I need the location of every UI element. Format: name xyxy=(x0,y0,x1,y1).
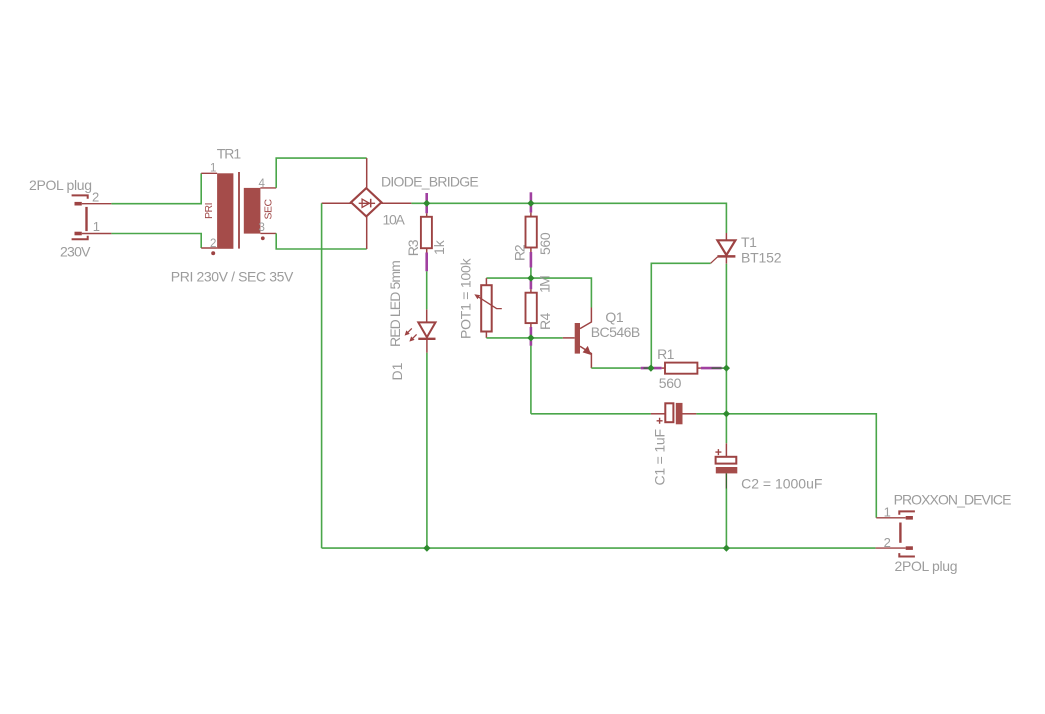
svg-text:1: 1 xyxy=(884,504,891,519)
TR1 secondary winding block xyxy=(244,188,261,234)
wire C2 bottom to bottom rail xyxy=(725,489,727,549)
wire plug pin1 to TR1 pin2 xyxy=(111,234,201,249)
resistor R1 xyxy=(641,363,722,374)
wire bottom rail xyxy=(322,547,876,549)
potentiometer POT1 xyxy=(474,278,502,338)
bridge right pin xyxy=(381,202,411,204)
TR1 core line xyxy=(238,172,240,249)
R4 body xyxy=(526,293,537,323)
wire mid rail junction to PROXXON pin1 xyxy=(726,414,876,518)
wire POT1 bottom row to Q1 base xyxy=(486,337,562,339)
svg-text:Q1: Q1 xyxy=(605,309,623,325)
svg-text:10A: 10A xyxy=(383,211,406,227)
svg-text:PRI: PRI xyxy=(203,203,215,219)
wire R3 bottom to D1 xyxy=(426,271,428,309)
C1 left pin xyxy=(651,413,665,415)
junction top rail R3 xyxy=(423,200,430,207)
T1 cathode bar xyxy=(717,255,735,258)
svg-text:TR1: TR1 xyxy=(217,145,242,161)
junction R4 bottom row xyxy=(527,334,534,341)
R3 top pin (magenta) xyxy=(425,193,428,213)
C2 plate + (outlined) xyxy=(716,457,737,464)
C1 plus sign xyxy=(657,418,663,424)
TR1 polarity dot primary xyxy=(211,251,215,255)
C1 right pin xyxy=(683,413,697,415)
D1 bottom pin xyxy=(426,339,428,353)
wire C1 right to junction xyxy=(696,413,726,415)
svg-text:RED LED 5mm: RED LED 5mm xyxy=(387,261,403,347)
svg-text:2: 2 xyxy=(884,535,891,550)
POT1 wiper arrow xyxy=(478,296,502,308)
T1 gate lead xyxy=(711,257,718,264)
wire top rail bridge right to T1 anode xyxy=(411,203,726,233)
transistor Q1 BC546B xyxy=(563,308,592,369)
svg-text:R1: R1 xyxy=(657,346,675,362)
wire T1 gate run down to R1 junction xyxy=(651,263,710,368)
svg-text:1M: 1M xyxy=(536,276,552,293)
D1 emission arrows xyxy=(407,328,417,339)
svg-text:2: 2 xyxy=(92,190,99,205)
C1 plate - (solid) xyxy=(676,403,683,424)
wire plug pin2 to TR1 pin1 xyxy=(111,173,201,203)
C2 bottom pin xyxy=(725,473,727,488)
C2 top pin xyxy=(725,443,727,457)
wire C1 rail left xyxy=(531,413,651,415)
svg-text:R3: R3 xyxy=(405,239,421,256)
diode bridge B1 DIODE_BRIDGE xyxy=(322,158,412,249)
C2 plate - (solid) xyxy=(716,467,738,473)
svg-text:560: 560 xyxy=(659,375,682,391)
wire D1 to bottom rail xyxy=(426,353,428,548)
svg-text:PROXXON_DEVICE: PROXXON_DEVICE xyxy=(894,492,1011,508)
TR1 pin 3 lead xyxy=(260,232,276,234)
resistor R4 xyxy=(526,280,537,345)
wire TR1 pin4 to bridge top xyxy=(276,158,367,188)
capacitor C1 xyxy=(651,403,697,424)
connector X2 PROXXON 2POL plug (right) xyxy=(876,511,915,556)
svg-text:1k: 1k xyxy=(431,239,447,255)
TR1 pin 1 lead xyxy=(201,172,217,174)
svg-text:230V: 230V xyxy=(60,244,91,260)
svg-text:C1 = 1uF: C1 = 1uF xyxy=(651,429,667,485)
svg-text:2POL plug: 2POL plug xyxy=(29,177,92,193)
R3 bottom pin (magenta) xyxy=(426,248,428,252)
POT1 bottom pin xyxy=(485,332,487,338)
R2 body xyxy=(526,217,537,248)
junction bottom rail C2 xyxy=(723,545,730,552)
svg-text:DIODE_BRIDGE: DIODE_BRIDGE xyxy=(381,174,478,190)
svg-text:POT1 = 100k: POT1 = 100k xyxy=(457,257,473,339)
resistor R2 xyxy=(526,192,537,267)
wire T1 cathode down rail xyxy=(725,264,727,444)
junction R1 left xyxy=(647,365,654,372)
bridge inner diode xyxy=(359,199,375,208)
R4 top pin (magenta) xyxy=(530,280,533,289)
D1 cathode bar xyxy=(418,338,435,340)
svg-text:2: 2 xyxy=(210,238,216,250)
junction dots xyxy=(423,200,730,552)
thyristor T1 BT152 xyxy=(711,233,736,264)
bridge diamond body xyxy=(351,188,381,216)
D1 triangle xyxy=(418,322,435,337)
R3 body xyxy=(421,217,432,248)
wire junction R4 bottom down to C1 rail xyxy=(530,338,532,414)
TR1 pin 4 lead xyxy=(260,187,276,189)
D1 top pin xyxy=(426,309,428,322)
svg-text:4: 4 xyxy=(259,178,266,190)
bridge left pin xyxy=(322,202,352,204)
Q1 emitter xyxy=(580,346,591,368)
junction top rail R2 xyxy=(527,200,534,207)
wire junction row to Q1 collector xyxy=(486,278,591,307)
svg-text:BT152: BT152 xyxy=(741,249,782,265)
led D1 xyxy=(405,309,436,353)
svg-text:PRI 230V / SEC 35V: PRI 230V / SEC 35V xyxy=(171,269,294,285)
TR1 pin 2 lead xyxy=(201,247,217,249)
svg-text:T1: T1 xyxy=(741,234,757,250)
C2 plus sign xyxy=(715,449,721,455)
wire Q1 emitter to R1 junction xyxy=(591,367,640,369)
R1 body xyxy=(665,363,697,374)
TR1 polarity dot secondary xyxy=(261,236,265,240)
Q1 base lead xyxy=(563,337,575,339)
wire TR1 pin3 to bridge bottom xyxy=(276,233,367,249)
Q1 base bar xyxy=(575,323,580,354)
R2 top pin (magenta) xyxy=(530,192,533,212)
svg-text:D1: D1 xyxy=(389,362,405,380)
bridge top pin xyxy=(366,158,368,188)
svg-text:SEC: SEC xyxy=(263,198,275,219)
bridge bottom pin xyxy=(366,217,368,250)
svg-text:C2 = 1000uF: C2 = 1000uF xyxy=(741,475,822,491)
svg-text:R4: R4 xyxy=(537,312,553,330)
Q1 emitter arrow xyxy=(583,346,592,355)
capacitor C2 xyxy=(715,443,737,488)
Q1 collector xyxy=(580,308,591,329)
svg-text:BC546B: BC546B xyxy=(591,324,640,340)
wire R2 bottom to junction xyxy=(530,268,532,279)
junction bottom rail D1 xyxy=(423,545,430,552)
R1 left pin (magenta) xyxy=(641,367,662,370)
svg-text:3: 3 xyxy=(259,222,265,234)
TR1 primary winding block xyxy=(217,173,233,249)
svg-text:2POL plug: 2POL plug xyxy=(895,558,958,574)
svg-text:R2: R2 xyxy=(511,244,527,261)
T1 anode pin xyxy=(725,233,727,240)
R4 bottom pin (magenta) xyxy=(530,323,532,327)
R1 right pin (magenta) xyxy=(697,367,701,369)
R2 bottom pin (magenta) xyxy=(530,248,532,253)
T1 cathode pin xyxy=(725,256,727,263)
junction R2 bottom row xyxy=(527,275,534,282)
junction mid rail T1 column xyxy=(723,410,730,417)
svg-text:560: 560 xyxy=(537,232,553,255)
C1 plate + (outlined) xyxy=(665,403,673,422)
wire under R1 right pin xyxy=(712,367,727,369)
POT1 body xyxy=(481,285,492,331)
connector X1 2POL plug (left) xyxy=(72,195,112,239)
wire bridge left to bottom rail xyxy=(321,203,323,548)
T1 triangle xyxy=(717,240,735,255)
resistor R3 xyxy=(421,193,432,271)
POT1 top pin xyxy=(485,278,487,285)
junction R1 right xyxy=(723,365,730,372)
svg-text:1: 1 xyxy=(93,219,100,234)
transformer TR1 xyxy=(201,172,276,255)
svg-text:1: 1 xyxy=(210,162,216,174)
